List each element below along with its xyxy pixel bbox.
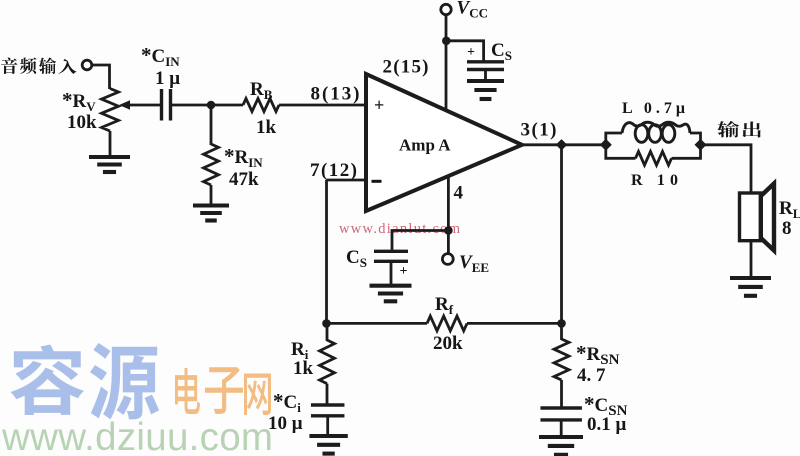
svg-text:+: +	[467, 45, 475, 60]
svg-text:10k: 10k	[67, 112, 97, 133]
svg-text:8: 8	[782, 218, 792, 239]
potentiometer wiper arrow	[129, 104, 163, 107]
speaker R_L	[740, 193, 761, 241]
capacitor C_S bottom	[374, 251, 408, 261]
ground under C_i	[309, 436, 347, 454]
svg-text:*Ci: *Ci	[273, 389, 301, 415]
svg-text:3(1): 3(1)	[521, 120, 557, 141]
Vcc terminal	[441, 4, 451, 14]
resistor R_i	[320, 340, 335, 384]
wire node to R_IN	[210, 105, 213, 145]
resistor R_IN	[204, 144, 219, 185]
wire C_S bottom to ground	[390, 261, 393, 285]
svg-text:1k: 1k	[293, 358, 314, 379]
node pin4	[444, 226, 453, 235]
resistor R_B	[243, 99, 279, 112]
inductor L to right node	[690, 133, 701, 145]
wire feedback right	[467, 322, 562, 325]
node Vcc	[442, 37, 451, 46]
wire pot to ground	[109, 131, 112, 157]
resistor R10 zigzag	[636, 152, 672, 166]
resistor R_SN	[554, 339, 569, 380]
ground under C_S top	[467, 81, 504, 99]
svg-text:47k: 47k	[229, 169, 259, 190]
resistor R_f	[427, 316, 467, 331]
wire input to pot	[92, 65, 109, 89]
wire R_i to C_i	[326, 384, 329, 405]
wire C_IN to R_B	[172, 104, 244, 107]
ground under R_V	[89, 157, 130, 172]
capacitor C_IN	[162, 89, 171, 121]
op-amp U1 Amp A	[366, 74, 522, 211]
wire to C_S bottom	[392, 231, 448, 252]
wire feedback vertical	[560, 145, 563, 324]
wire C_i to ground	[326, 416, 329, 436]
svg-text:0.1 μ: 0.1 μ	[587, 414, 627, 435]
svg-text:Amp A: Amp A	[399, 136, 451, 155]
capacitor C_SN	[540, 408, 582, 420]
svg-text:4. 7: 4. 7	[577, 365, 606, 386]
label 输出	[717, 121, 738, 138]
wire feedback left	[327, 322, 428, 325]
wire R_B to op-amp	[279, 104, 366, 107]
resistor R10 right	[672, 145, 701, 159]
wire C_SN to ground	[560, 420, 563, 437]
capacitor C_S top	[467, 62, 504, 70]
node feedback right	[557, 319, 566, 328]
wire R_IN to ground	[210, 185, 213, 206]
Vee terminal	[442, 254, 453, 265]
svg-text:+: +	[374, 95, 384, 115]
node at pin3	[556, 139, 567, 150]
wire pin4 to Vee	[447, 176, 450, 254]
label 音频输入	[1, 57, 17, 73]
wire node to R_SN	[560, 323, 563, 340]
svg-text:www.dianlut.com: www.dianlut.com	[339, 221, 461, 237]
wire R_SN to C_SN	[560, 380, 563, 408]
inductor L coils	[622, 122, 690, 133]
ground under speaker	[730, 278, 771, 296]
svg-text:10 μ: 10 μ	[268, 413, 303, 434]
svg-text:1 μ: 1 μ	[155, 68, 180, 89]
wire Vcc to pin2	[445, 15, 448, 111]
node L right	[695, 139, 707, 151]
inductor L top branch	[606, 133, 622, 145]
node feedback left	[322, 319, 331, 328]
svg-text:1k: 1k	[256, 117, 277, 138]
ground under C_SN	[539, 437, 583, 455]
wire inv input down to feedback	[325, 180, 328, 324]
watermark 容源	[11, 345, 84, 415]
resistor R10 bottom branch left	[606, 145, 636, 159]
op-amp - input marker	[372, 180, 382, 183]
svg-text:+: +	[400, 264, 408, 279]
ground under C_S bottom	[370, 286, 412, 302]
svg-text:2(15): 2(15)	[383, 57, 429, 78]
input terminal	[82, 60, 92, 70]
wire pin3 to L	[521, 143, 606, 146]
svg-text:4: 4	[454, 183, 464, 204]
wire C_S to ground	[484, 70, 487, 82]
ground under R_IN	[193, 206, 229, 221]
watermark 电子网	[175, 368, 200, 414]
svg-text:www.dziuu.com: www.dziuu.com	[1, 416, 273, 456]
node L left	[600, 139, 612, 151]
wire to output	[701, 145, 752, 193]
wire node to C_S top	[446, 41, 483, 62]
svg-text:20k: 20k	[433, 333, 463, 354]
potentiometer R_V zigzag	[102, 89, 119, 132]
node after C_IN	[207, 101, 216, 110]
capacitor C_i	[311, 405, 345, 416]
wire speaker to ground	[750, 241, 753, 278]
wire node to R_i	[326, 323, 329, 341]
svg-text:7(12): 7(12)	[310, 160, 357, 181]
wire inverting input	[327, 179, 367, 182]
